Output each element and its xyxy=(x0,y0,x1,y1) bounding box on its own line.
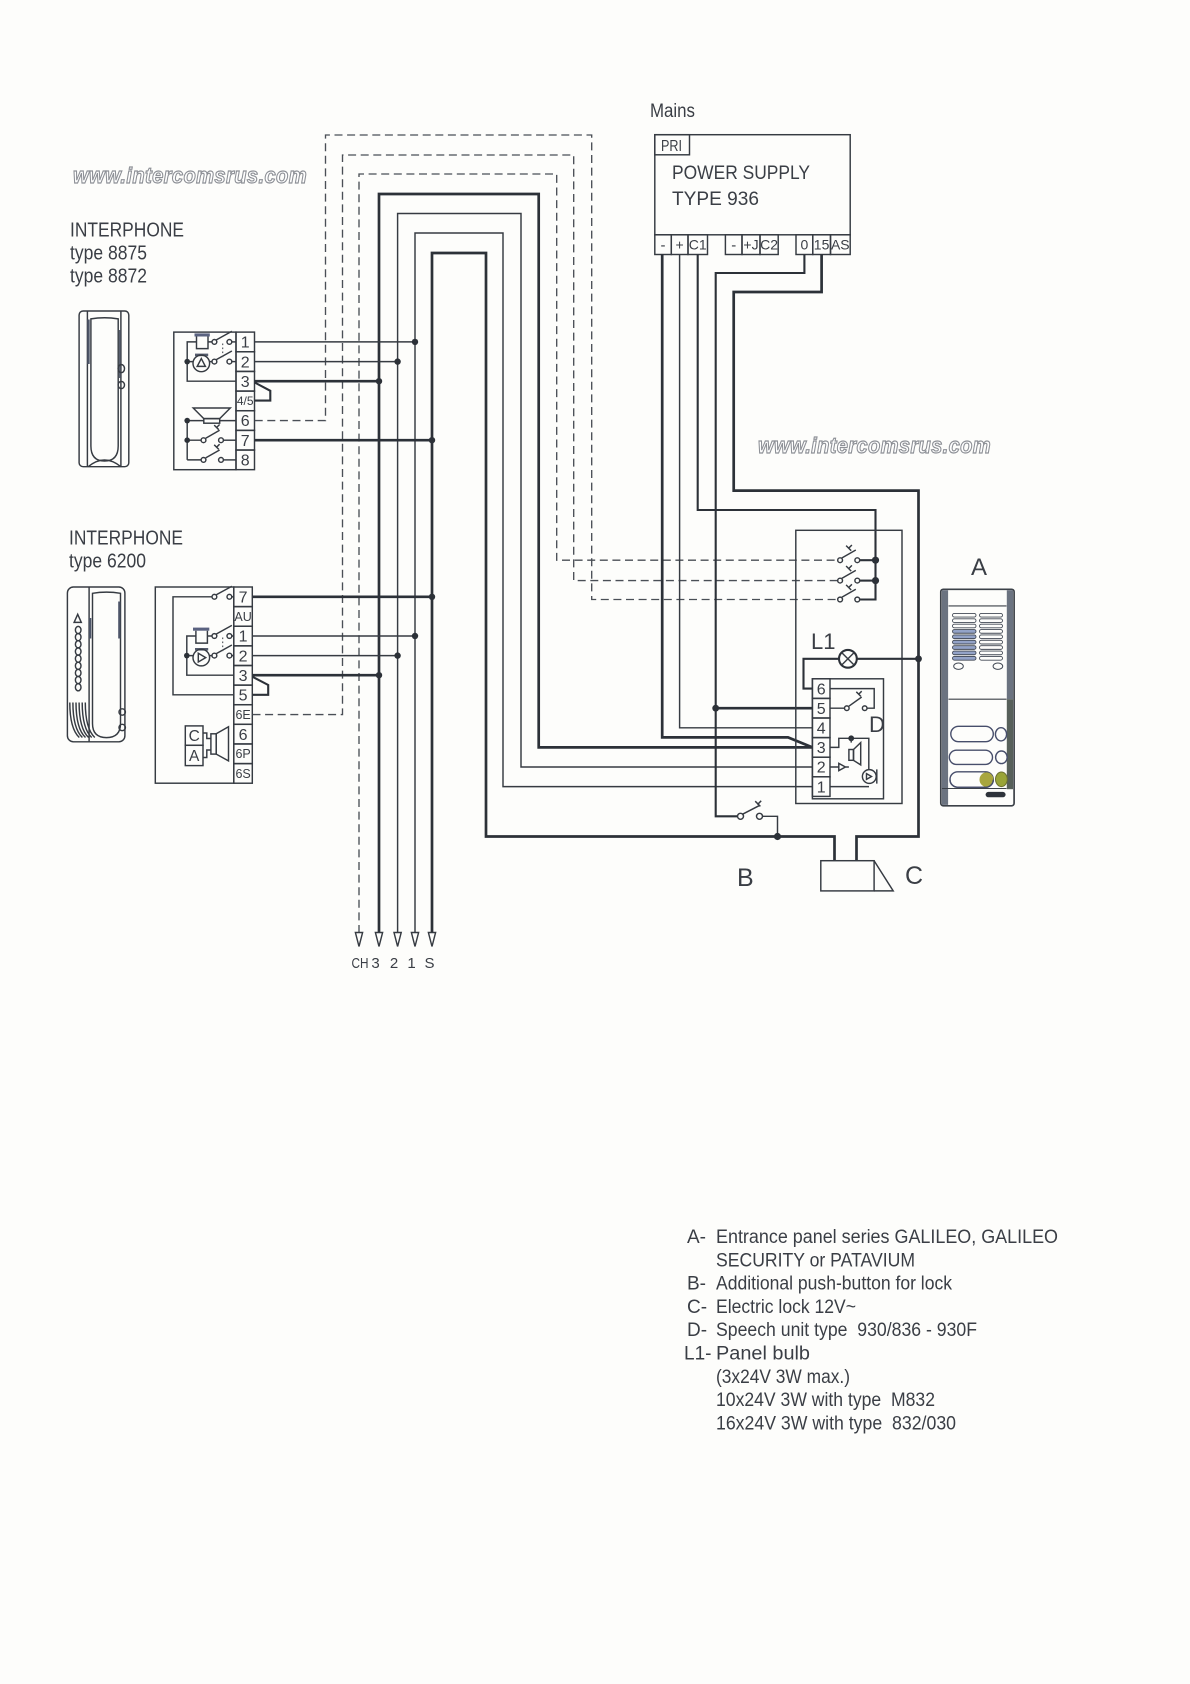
wire C1 bus stub button 1 xyxy=(860,559,876,561)
wire 6200 terminal 3 to riser 3 xyxy=(253,674,380,677)
interphone 6200 ganged switch link xyxy=(222,638,224,653)
svg-text:type 8875: type 8875 xyxy=(70,243,147,265)
interphone 8875 strap terminal 3 to 4/5 xyxy=(255,383,271,401)
wire terminal + to speech unit 4 xyxy=(680,255,813,728)
call button switch 1 xyxy=(838,545,860,563)
wire net 1 riser xyxy=(415,233,812,933)
wire net 6 dashed (interphone 8875 terminal 6 to entrance panel button) xyxy=(255,135,838,600)
electric lock C xyxy=(821,861,893,891)
svg-text:www.intercomsrus.com: www.intercomsrus.com xyxy=(758,433,991,458)
svg-text:3: 3 xyxy=(241,374,250,391)
svg-text:L1: L1 xyxy=(811,629,835,654)
interphone 8875 speaker bus wire xyxy=(187,421,236,460)
svg-text:B-: B- xyxy=(687,1274,706,1295)
svg-text:A: A xyxy=(189,748,200,765)
wire 8875 terminal 3 to riser 3 xyxy=(255,380,379,383)
power supply terminal + xyxy=(671,235,688,255)
svg-text:POWER SUPPLY: POWER SUPPLY xyxy=(672,162,810,184)
svg-text:6S: 6S xyxy=(235,767,250,781)
speech unit microphone xyxy=(830,769,877,786)
svg-text:2: 2 xyxy=(817,760,826,777)
junction dot 0 to speech unit 5 xyxy=(712,705,719,712)
svg-text:Additional push-button for loc: Additional push-button for lock xyxy=(716,1274,952,1295)
svg-text:16x24V 3W with type 832/030: 16x24V 3W with type 832/030 xyxy=(716,1413,956,1434)
wire terminal - to speech unit 3 xyxy=(662,255,812,748)
svg-text:Speech unit type 930/836 - 93: Speech unit type 930/836 - 930F xyxy=(716,1320,977,1341)
wire C1 bus stub button 2 xyxy=(860,580,876,582)
svg-text:5: 5 xyxy=(817,701,826,718)
svg-text:-: - xyxy=(731,237,736,254)
svg-text:-: - xyxy=(661,237,666,254)
label INTERPHONE type 8875 / 8872 xyxy=(70,220,184,288)
wire terminal C1 to call buttons common xyxy=(698,255,876,600)
power supply terminal +J xyxy=(742,235,760,255)
svg-text:Entrance panel series GALILEO,: Entrance panel series GALILEO, GALILEO xyxy=(716,1227,1058,1248)
interphone 8875 hook switch contacts row 1 xyxy=(212,331,236,344)
power supply terminal AS xyxy=(831,235,851,255)
svg-text:TYPE 936: TYPE 936 xyxy=(672,188,759,210)
svg-text:B: B xyxy=(737,864,754,892)
svg-text:PRI: PRI xyxy=(661,138,682,155)
svg-text:C1: C1 xyxy=(689,237,707,253)
entrance panel wiring box xyxy=(796,530,902,803)
call button switch 3 xyxy=(838,584,860,602)
svg-text:INTERPHONE: INTERPHONE xyxy=(70,220,184,242)
interphone 6200 speaker icon xyxy=(203,727,229,761)
wire net 6E dashed (interphone 6200 terminal 6E to entrance panel button) xyxy=(253,155,838,715)
interphone 8875 buzzer icon xyxy=(193,354,210,372)
junction dot 6200-7 on riser S xyxy=(429,594,435,600)
interphone 8875 terminal block outline xyxy=(174,332,236,470)
svg-text:C-: C- xyxy=(687,1297,707,1318)
svg-text:6: 6 xyxy=(817,681,826,698)
entrance panel A front view xyxy=(941,589,1014,806)
svg-text:6E: 6E xyxy=(235,708,250,722)
svg-text:3: 3 xyxy=(239,668,248,685)
junction dot 8875-2 on riser 2 xyxy=(394,358,400,364)
interphone 8875 terminals 1-8 xyxy=(236,332,255,352)
svg-text:AS: AS xyxy=(831,237,850,253)
svg-text:8: 8 xyxy=(241,453,250,470)
svg-text:Electric lock 12V~: Electric lock 12V~ xyxy=(716,1297,856,1318)
svg-text:6: 6 xyxy=(239,727,248,744)
svg-text:3: 3 xyxy=(371,955,379,972)
svg-text:SECURITY or PATAVIUM: SECURITY or PATAVIUM xyxy=(716,1250,915,1271)
interphone 6200 junction dot icon bus xyxy=(184,653,190,659)
svg-text:7: 7 xyxy=(239,590,248,607)
power supply terminal 0 xyxy=(796,235,813,255)
interphone 6200 terminals xyxy=(234,587,253,607)
power supply type 936 box xyxy=(655,135,850,235)
wire net 2 riser xyxy=(398,214,813,934)
svg-text:2: 2 xyxy=(239,648,248,665)
svg-text:L1-: L1- xyxy=(684,1344,711,1365)
handset icon interphone 6200 xyxy=(67,587,125,742)
wire 6200 terminal 2 to riser 2 xyxy=(253,655,398,657)
interphone 8875 ganged switch link xyxy=(222,344,224,359)
interphone 8875 internal wiring bus xyxy=(187,342,236,381)
svg-text:2: 2 xyxy=(241,354,250,371)
interphone 6200 internal hook wire 7-5 xyxy=(173,597,234,695)
interphone 8875 switch row 7 xyxy=(201,425,236,443)
power supply terminal - (middle group) xyxy=(725,235,742,255)
continuation arrow CH xyxy=(355,933,362,947)
junction dot lamp on 15 riser xyxy=(915,655,922,662)
junction dot 6200-2 on riser 2 xyxy=(394,652,400,658)
junction dot B on lock bus xyxy=(774,833,781,840)
svg-text:5: 5 xyxy=(239,688,248,705)
labels CH 3 2 1 S xyxy=(352,955,435,972)
interphone 6200 buzzer icon xyxy=(193,648,210,666)
interphone 6200 strap terminal 3 to 5 xyxy=(253,677,269,695)
svg-text:4/5: 4/5 xyxy=(237,394,254,408)
handset icon interphone 8875 xyxy=(79,311,129,467)
interphone 8875 speaker icon xyxy=(193,408,230,423)
push-button B xyxy=(738,801,778,834)
interphone 6200 ringer icon xyxy=(193,628,209,644)
interphone 8875 junction dot switch 7 xyxy=(184,437,190,443)
power supply terminal C2 xyxy=(760,235,778,255)
continuation arrow 1 xyxy=(411,933,418,947)
interphone 8875 junction dot icon bus xyxy=(184,359,190,365)
junction dot 6200-3 on riser 3 xyxy=(376,672,382,678)
lamp L1 xyxy=(804,650,919,689)
svg-text:AU: AU xyxy=(234,610,251,624)
power supply terminal - (left group) xyxy=(655,235,672,255)
wire terminal 15 to lamp and lock xyxy=(734,255,919,861)
interphone 6200 box C xyxy=(185,726,203,745)
svg-text:A-: A- xyxy=(687,1227,706,1248)
interphone 8875 switch row 8 xyxy=(201,444,236,462)
svg-text:C: C xyxy=(905,862,923,890)
interphone 6200 terminal block outline xyxy=(155,587,234,783)
interphone 6200 switch row 7 xyxy=(212,586,234,599)
continuation arrow 2 xyxy=(394,933,401,947)
interphone 6200 switch row 2 xyxy=(212,645,234,658)
continuation arrow S xyxy=(428,933,435,947)
junction dot C1 bus button 1 xyxy=(872,557,879,564)
speech unit switch xyxy=(830,689,874,711)
speech unit terminals 6-1 xyxy=(812,679,830,699)
wire 6200 terminal 1 to riser 1 xyxy=(253,635,416,637)
svg-text:+: + xyxy=(676,237,684,253)
svg-text:D-: D- xyxy=(687,1320,707,1341)
legend text xyxy=(684,1227,1058,1434)
speech unit D box xyxy=(812,679,883,799)
wire net CH dashed (riser to entrance panel button) xyxy=(359,174,838,933)
svg-text:1: 1 xyxy=(407,955,415,972)
power supply terminal C1 xyxy=(688,235,708,255)
svg-text:type 8872: type 8872 xyxy=(70,266,147,288)
wire 6200 terminal 7 to riser S xyxy=(253,595,433,598)
svg-text:C2: C2 xyxy=(760,237,778,253)
wire 0 branch to speech unit 5 xyxy=(716,707,813,710)
junction dot C1 bus button 2 xyxy=(872,577,879,584)
svg-text:10x24V 3W with type M832: 10x24V 3W with type M832 xyxy=(716,1390,935,1411)
svg-text:15: 15 xyxy=(814,237,830,253)
svg-text:CH: CH xyxy=(352,955,369,972)
svg-text:6P: 6P xyxy=(235,747,250,761)
power supply terminal 15 xyxy=(813,235,831,255)
interphone 8875 hook switch contacts row 2 xyxy=(212,351,236,364)
svg-text:1: 1 xyxy=(239,629,248,646)
junction dot 8875-1 on riser 1 xyxy=(412,339,418,345)
svg-text:3: 3 xyxy=(817,740,826,757)
call button switch 2 xyxy=(838,565,860,583)
svg-text:2: 2 xyxy=(390,955,398,972)
svg-text:Mains: Mains xyxy=(650,101,695,122)
svg-text:C: C xyxy=(189,728,200,745)
svg-text:(3x24V 3W max.): (3x24V 3W max.) xyxy=(716,1367,850,1388)
svg-text:S: S xyxy=(424,955,434,972)
wire 8875 terminal 1 to riser 1 xyxy=(255,341,415,343)
svg-text:1: 1 xyxy=(817,779,826,796)
svg-text:INTERPHONE: INTERPHONE xyxy=(69,528,183,550)
svg-text:7: 7 xyxy=(241,433,250,450)
svg-text:+J: +J xyxy=(743,237,758,253)
svg-text:www.intercomsrus.com: www.intercomsrus.com xyxy=(73,163,307,188)
interphone 6200 internal wiring bus xyxy=(187,636,234,675)
wire net S riser (thick) to lock xyxy=(432,253,835,933)
interphone 6200 box A xyxy=(185,745,203,765)
label INTERPHONE type 6200 xyxy=(69,528,183,573)
svg-text:Panel bulb: Panel bulb xyxy=(716,1344,810,1365)
svg-text:4: 4 xyxy=(817,721,826,738)
interphone 8875 junction dot speaker xyxy=(184,418,190,424)
junction dot 8875-3 on riser 3 xyxy=(376,378,382,384)
svg-text:type 6200: type 6200 xyxy=(69,551,146,573)
svg-text:A: A xyxy=(971,554,987,581)
continuation arrow 3 xyxy=(375,933,382,947)
svg-text:0: 0 xyxy=(801,237,809,253)
junction dot 6200-1 on riser 1 xyxy=(412,633,418,639)
svg-text:6: 6 xyxy=(241,413,250,430)
junction dot 8875-7 on riser S xyxy=(429,437,435,443)
wire net 3 riser (thick) xyxy=(379,194,812,933)
svg-text:D: D xyxy=(869,712,885,737)
speech unit amplifier triangle xyxy=(830,763,849,770)
svg-text:1: 1 xyxy=(241,335,250,352)
interphone 8875 ringer icon xyxy=(195,333,210,348)
wire terminal 0 riser xyxy=(716,255,805,817)
wire 8875 terminal 7 to riser S xyxy=(255,439,432,442)
wire 8875 terminal 2 to riser 2 xyxy=(255,361,398,363)
speech unit speaker xyxy=(830,735,869,770)
interphone 6200 switch row 1 xyxy=(212,625,234,638)
